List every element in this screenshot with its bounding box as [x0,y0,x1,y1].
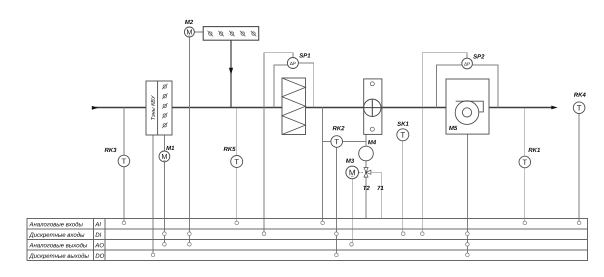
damper box [364,79,382,134]
label RK5 [224,147,236,151]
label RK1 [528,148,540,152]
wire: SP1 right pressure tap [298,63,314,108]
heater elements in battery box [208,31,257,37]
wire: SK1 drop to DI [402,141,404,234]
wire: M4 control to DO [336,142,366,255]
node: AI terminals [122,221,581,225]
motor M2 [184,27,194,37]
wire: M5 fan drop to DI AO DO [466,134,468,255]
right flow arrow [551,106,557,110]
wire: valve stem from M4 [365,161,367,168]
row label: discrete outputs DO [29,253,104,259]
heater elements in KVU box [162,84,168,128]
heater box KVU [146,81,172,135]
IO table [27,218,588,260]
electric heater battery box [203,27,259,41]
row label: analog outputs AO [29,243,104,247]
pressure sensor SP1 [287,58,298,69]
wire: RK2 stub [323,141,331,143]
label M2 [185,20,193,24]
sensor RK1 [519,156,531,168]
fan impeller [455,101,483,125]
node: DI terminals [163,232,470,236]
wire: SP1 signal to DI [264,53,293,234]
wire: SP1 left pressure tap [274,65,288,108]
sensor RK5 [231,156,243,168]
row label: analog inputs AI [29,222,101,226]
label M3 [346,159,354,163]
wire: damper stem to actuator M4 [365,134,367,146]
wire: M2 motor drop to DI and AO [188,37,190,244]
label M4 [368,140,376,144]
label RK4 [574,93,586,97]
wire: RK5 drop to AI [236,108,238,223]
wire: heater KVU left column drop to DO [152,135,154,255]
wire: RK4 drop to AI [578,114,580,223]
wire: SP2 right pressure tap [472,65,498,108]
wire: RK3 drop to AI [123,108,125,223]
node: DO terminals [151,253,469,257]
label M1 [166,146,174,150]
pressure sensor SP2 [462,58,473,69]
valve three-way [364,168,371,178]
label M5 [449,126,457,130]
label T1 [377,186,383,190]
wire: M1 heater column drop to DI and AO [163,135,165,245]
wire: RK1 drop to AI [524,108,526,223]
wire: heater battery feed into duct [229,40,233,107]
left flow arrow [92,106,99,110]
wire: SP2 signal to DI [422,53,467,234]
row label: discrete inputs DI [29,232,101,238]
wire: RK2 drop to AI [322,108,324,223]
label RK3 [105,148,117,152]
node: AO terminals [163,243,470,247]
label T2 [363,186,370,190]
sensor SK1 [397,129,409,141]
wire: M3 drop to AO [351,179,353,245]
fan box M5 [446,79,489,134]
wire: M2 link to heater battery [194,31,203,33]
wire: main supply duct line [95,107,552,109]
label SP1 [299,53,310,57]
wire: dashed link M3 to valve [359,171,364,173]
filter F1 [282,78,306,135]
actuator M4 [359,146,374,161]
label SK1 [397,122,408,126]
motor M1 [159,151,170,162]
wire: T2 pipe [365,177,367,218]
wire: SP2 left pressure tap [436,65,462,108]
sensor RK4 [573,102,585,114]
sensor RK3 [118,155,130,167]
motor M3 [346,166,359,179]
label RK2 [333,126,345,130]
label SP2 [473,54,484,58]
sensor RK2 [331,136,343,148]
wire: T1 pipe [371,172,382,218]
